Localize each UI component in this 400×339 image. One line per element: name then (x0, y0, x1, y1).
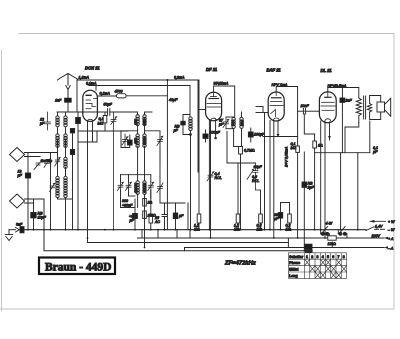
bus y=246 (185, 248, 385, 251)
svg-text:800: 800 (231, 120, 235, 126)
svg-text:8: 8 (343, 255, 345, 259)
resistor 0,1 MOhm (103, 112, 107, 131)
svg-text:1: 1 (306, 255, 308, 259)
svg-text:– A: – A (387, 246, 394, 250)
svg-text:µF: µF (373, 150, 378, 154)
svg-text:50µF: 50µF (104, 103, 113, 107)
capacitor 12pF trimmer near coil (45, 112, 51, 130)
svg-text:1Ω: 1Ω (318, 144, 323, 148)
trimmer 0,4 RCL (207, 172, 214, 182)
small caps on left col verticals (0, 0, 1, 1)
resistor 0,3 MOhm (259, 190, 263, 230)
wire: DAF11 anode loop (276, 87, 297, 137)
oscillator coil 10000 x2 (136, 181, 146, 248)
tube DL11 (319, 92, 336, 123)
svg-text:2: 2 (311, 255, 313, 259)
ground bus (main, y=230) (24, 229, 366, 231)
svg-text:+ A: + A (388, 237, 394, 241)
svg-text:Mittel: Mittel (289, 268, 298, 272)
wire: DF11 anode loop (214, 86, 235, 117)
junction node IF1 (190, 134, 192, 136)
antenna (58, 74, 79, 98)
switch contact pair a (321, 227, 330, 239)
wire node at 288.4 (287, 238, 289, 248)
svg-text:ZF=472kHz: ZF=472kHz (224, 261, 256, 267)
svg-text:3: 3 (317, 255, 319, 259)
capacitor NB (IF1 parallel) (181, 121, 185, 125)
svg-text:µF: µF (130, 219, 135, 223)
svg-text:MΩ: MΩ (291, 146, 297, 150)
svg-text:DL 11: DL 11 (321, 68, 333, 73)
svg-text:RCL: RCL (215, 176, 222, 180)
capacitor 3nF + ground (bottom-left) (9, 227, 24, 233)
heater drops left of center (142, 230, 190, 238)
wire: line A 6,2mA (77, 80, 199, 214)
coil L1a antenna (56, 112, 73, 199)
capacitor NB 10uF on x=33.5 (31, 213, 36, 218)
svg-text:100V: 100V (372, 234, 381, 238)
wire: DAF11 grid line left (256, 107, 268, 113)
wire: DCH anode to 4700 (97, 95, 116, 97)
capacitor 100nF (under IF) (203, 130, 208, 142)
resistor 4,7 MOhm (239, 147, 243, 155)
capacitor black (bandfilter) (128, 135, 133, 148)
svg-text:150: 150 (134, 119, 138, 125)
transformer secondary (367, 96, 380, 120)
switch at end of ground bus (366, 227, 385, 231)
wires below DF11 (198, 80, 256, 238)
svg-text:10µF: 10µF (38, 216, 47, 220)
capacitor (black) on x=78 (76, 112, 81, 131)
svg-text:10000: 10000 (134, 183, 138, 193)
svg-text:1,1mA: 1,1mA (79, 76, 90, 80)
svg-text:60pF: 60pF (254, 165, 263, 169)
bottom bus y=250.5 (44, 230, 307, 251)
capacitor 25 (160, 203, 185, 230)
capacitor 2nF (black) (340, 98, 345, 153)
svg-text:µF: µF (18, 174, 23, 178)
tube DCH11 (83, 90, 98, 121)
trimmer osc mid (126, 182, 132, 191)
svg-text:7: 7 (338, 255, 340, 259)
capacitor 10nF coupling to DL11 (298, 108, 320, 114)
trimmer cap at 113 (111, 112, 117, 230)
oscillator coil box (121, 175, 151, 230)
svg-text:0,1: 0,1 (99, 117, 104, 121)
svg-text:0,7MΩ: 0,7MΩ (244, 149, 255, 153)
wire verticals right area (304, 152, 358, 251)
svg-text:4: 4 (322, 255, 324, 259)
trimmer 60pF RCL (247, 163, 261, 190)
svg-text:40µF: 40µF (169, 98, 178, 102)
capacitor NB 2uF black on x=304 (302, 182, 307, 187)
NSB black box (305, 242, 332, 249)
svg-text:2µF: 2µF (307, 186, 315, 190)
capacitor black 68 (278, 203, 282, 230)
svg-text:4-W: 4-W (326, 222, 333, 226)
wire AVC line (188, 135, 191, 230)
svg-text:800: 800 (240, 120, 244, 126)
diamond connector (antenna input) (10, 148, 58, 162)
wire: DF11 grid line (199, 109, 206, 111)
svg-text:Braun - 449D: Braun - 449D (45, 262, 111, 274)
capacitor 50uF (108, 109, 110, 116)
svg-text:– W: – W (387, 228, 395, 232)
svg-text:6: 6 (332, 255, 334, 259)
svg-text:Lang: Lang (289, 274, 297, 278)
coil pair 2 (left band coils) (56, 176, 67, 197)
Braun 449D title box (39, 258, 115, 275)
trimmer cap 37pF (223, 117, 229, 129)
svg-text:5: 5 (327, 255, 329, 259)
svg-text:0,1mA: 0,1mA (100, 92, 111, 96)
coil IF1 primary (189, 117, 192, 120)
capacitor 1nF (antenna series) (65, 98, 72, 112)
svg-text:1Ω: 1Ω (148, 201, 153, 205)
svg-text:510: 510 (143, 138, 147, 144)
trimmer caps left of coil 650 (122, 134, 128, 148)
coil pair 650/510 (136, 134, 146, 181)
resistor on osc trimmer line (149, 190, 153, 230)
speaker (377, 98, 391, 116)
wires below DCH11 (78, 121, 128, 242)
trimmer at x=158 (right) (157, 136, 163, 193)
svg-text:µF: µF (179, 214, 184, 218)
svg-text:650: 650 (134, 138, 138, 144)
wire: secondary return y=152.7 (304, 111, 370, 230)
svg-text:+ W: + W (388, 220, 395, 224)
svg-text:6,2mA: 6,2mA (174, 76, 185, 80)
bandfilter coil pair 150/150 (136, 112, 146, 134)
switch contact pair b (338, 227, 347, 239)
wire link bandfilter y=130.5 (121, 131, 160, 203)
svg-text:Schalter: Schalter (289, 255, 303, 259)
wires below DL11 (321, 121, 331, 238)
trimmer on left coil line (55, 157, 60, 166)
wire verticals left column (28, 140, 66, 230)
svg-text:DCH 11: DCH 11 (85, 66, 100, 71)
resistor 1,2 MOhm (197, 214, 201, 230)
svg-text:MΩ: MΩ (286, 228, 292, 232)
svg-text:100µF: 100µF (254, 133, 265, 137)
wire: top of input bandfilter (57, 112, 152, 115)
svg-text:pF: pF (39, 122, 45, 126)
svg-text:B+V 0,05mA: B+V 0,05mA (285, 146, 289, 167)
svg-text:85V/1mA: 85V/1mA (214, 82, 229, 86)
svg-text:BaFSp: BaFSp (41, 159, 52, 163)
output transformer primary (342, 88, 361, 153)
resistor small on x=77 (77, 142, 79, 230)
switch table (289, 253, 347, 279)
capacitor 12uF on x=28 (25, 173, 30, 178)
heater bus y=239 (138, 237, 385, 239)
resistor 4700 (horizontal) (117, 79, 169, 230)
arrow -A (bottom bus end) (384, 246, 388, 248)
svg-text:MΩ: MΩ (257, 228, 263, 232)
tube DAF11 (268, 92, 284, 121)
diamond connector 2 (phono input) (10, 194, 45, 230)
wire: DL11 anode loop (328, 88, 343, 99)
IF transformer 2 coils 800/800 (226, 112, 243, 132)
junction dots on buses (27, 229, 359, 252)
capacitor black NB (173, 203, 177, 230)
resistor 12k on heater bus (328, 236, 336, 240)
trimmer osc right (148, 182, 154, 191)
resistor below (143, 211, 147, 219)
svg-text:DF 11: DF 11 (206, 67, 218, 72)
wire L2 heater return (88, 242, 289, 244)
svg-text:RCL: RCL (252, 179, 259, 183)
svg-text:300: 300 (122, 199, 128, 203)
svg-text:1nF: 1nF (55, 99, 62, 103)
wires below DAF11 (265, 113, 280, 239)
svg-text:pF: pF (218, 123, 224, 127)
trimmer left of coil pair 2 (50, 183, 56, 192)
svg-text:AC: AC (154, 220, 160, 224)
arrow +W (top right) (370, 220, 386, 223)
svg-text:+30µF: +30µF (122, 204, 133, 208)
capacitor black +30uF (133, 214, 138, 219)
svg-text:4700: 4700 (115, 90, 123, 94)
ground (5, 230, 13, 241)
capacitor 100uF (DAF area) (248, 128, 253, 142)
svg-text:DAF 11: DAF 11 (267, 68, 282, 73)
svg-text:µF: µF (174, 129, 179, 133)
resistor 0,2 MOhm (281, 203, 292, 230)
svg-text:1,4V: 1,4V (375, 224, 383, 228)
wire: 297.6 down / resistor (263, 137, 299, 239)
tube DF11 (206, 92, 222, 120)
svg-text:2nF: 2nF (345, 99, 353, 103)
svg-text:10000: 10000 (143, 183, 147, 193)
trimmer osc left (118, 182, 124, 191)
resistor 1,2 MOhm b (236, 163, 240, 230)
resistor (padder) x=144.5 (143, 199, 147, 207)
svg-text:150: 150 (143, 119, 147, 125)
svg-text:3nF: 3nF (16, 223, 23, 227)
arrow +A (heater bus end) (384, 237, 388, 239)
svg-text:Phono: Phono (289, 261, 300, 265)
transformer core (364, 96, 366, 119)
svg-text:6,1mA: 6,1mA (86, 82, 97, 86)
svg-text:10nF: 10nF (301, 104, 310, 108)
svg-text:MΩ: MΩ (234, 228, 240, 232)
trimmer capacitors (BaFSp) (34, 160, 43, 170)
svg-text:MΩ: MΩ (98, 122, 104, 126)
svg-text:100µF: 100µF (210, 131, 221, 135)
resistor on x=314.6 (304, 114, 316, 148)
wire: line B 6,1mA (89, 86, 96, 91)
